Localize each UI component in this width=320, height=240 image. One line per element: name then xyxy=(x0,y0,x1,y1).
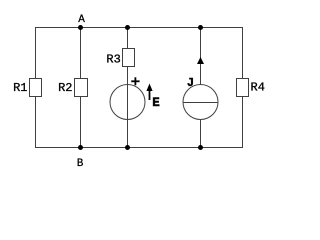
svg-text:E: E xyxy=(152,96,160,110)
svg-text:B: B xyxy=(77,158,84,170)
svg-text:A: A xyxy=(78,14,85,26)
svg-text:R4: R4 xyxy=(251,80,265,94)
svg-text:R1: R1 xyxy=(13,81,27,95)
svg-text:J: J xyxy=(187,76,194,90)
svg-text:R2: R2 xyxy=(58,81,72,95)
svg-text:R3: R3 xyxy=(106,53,120,67)
